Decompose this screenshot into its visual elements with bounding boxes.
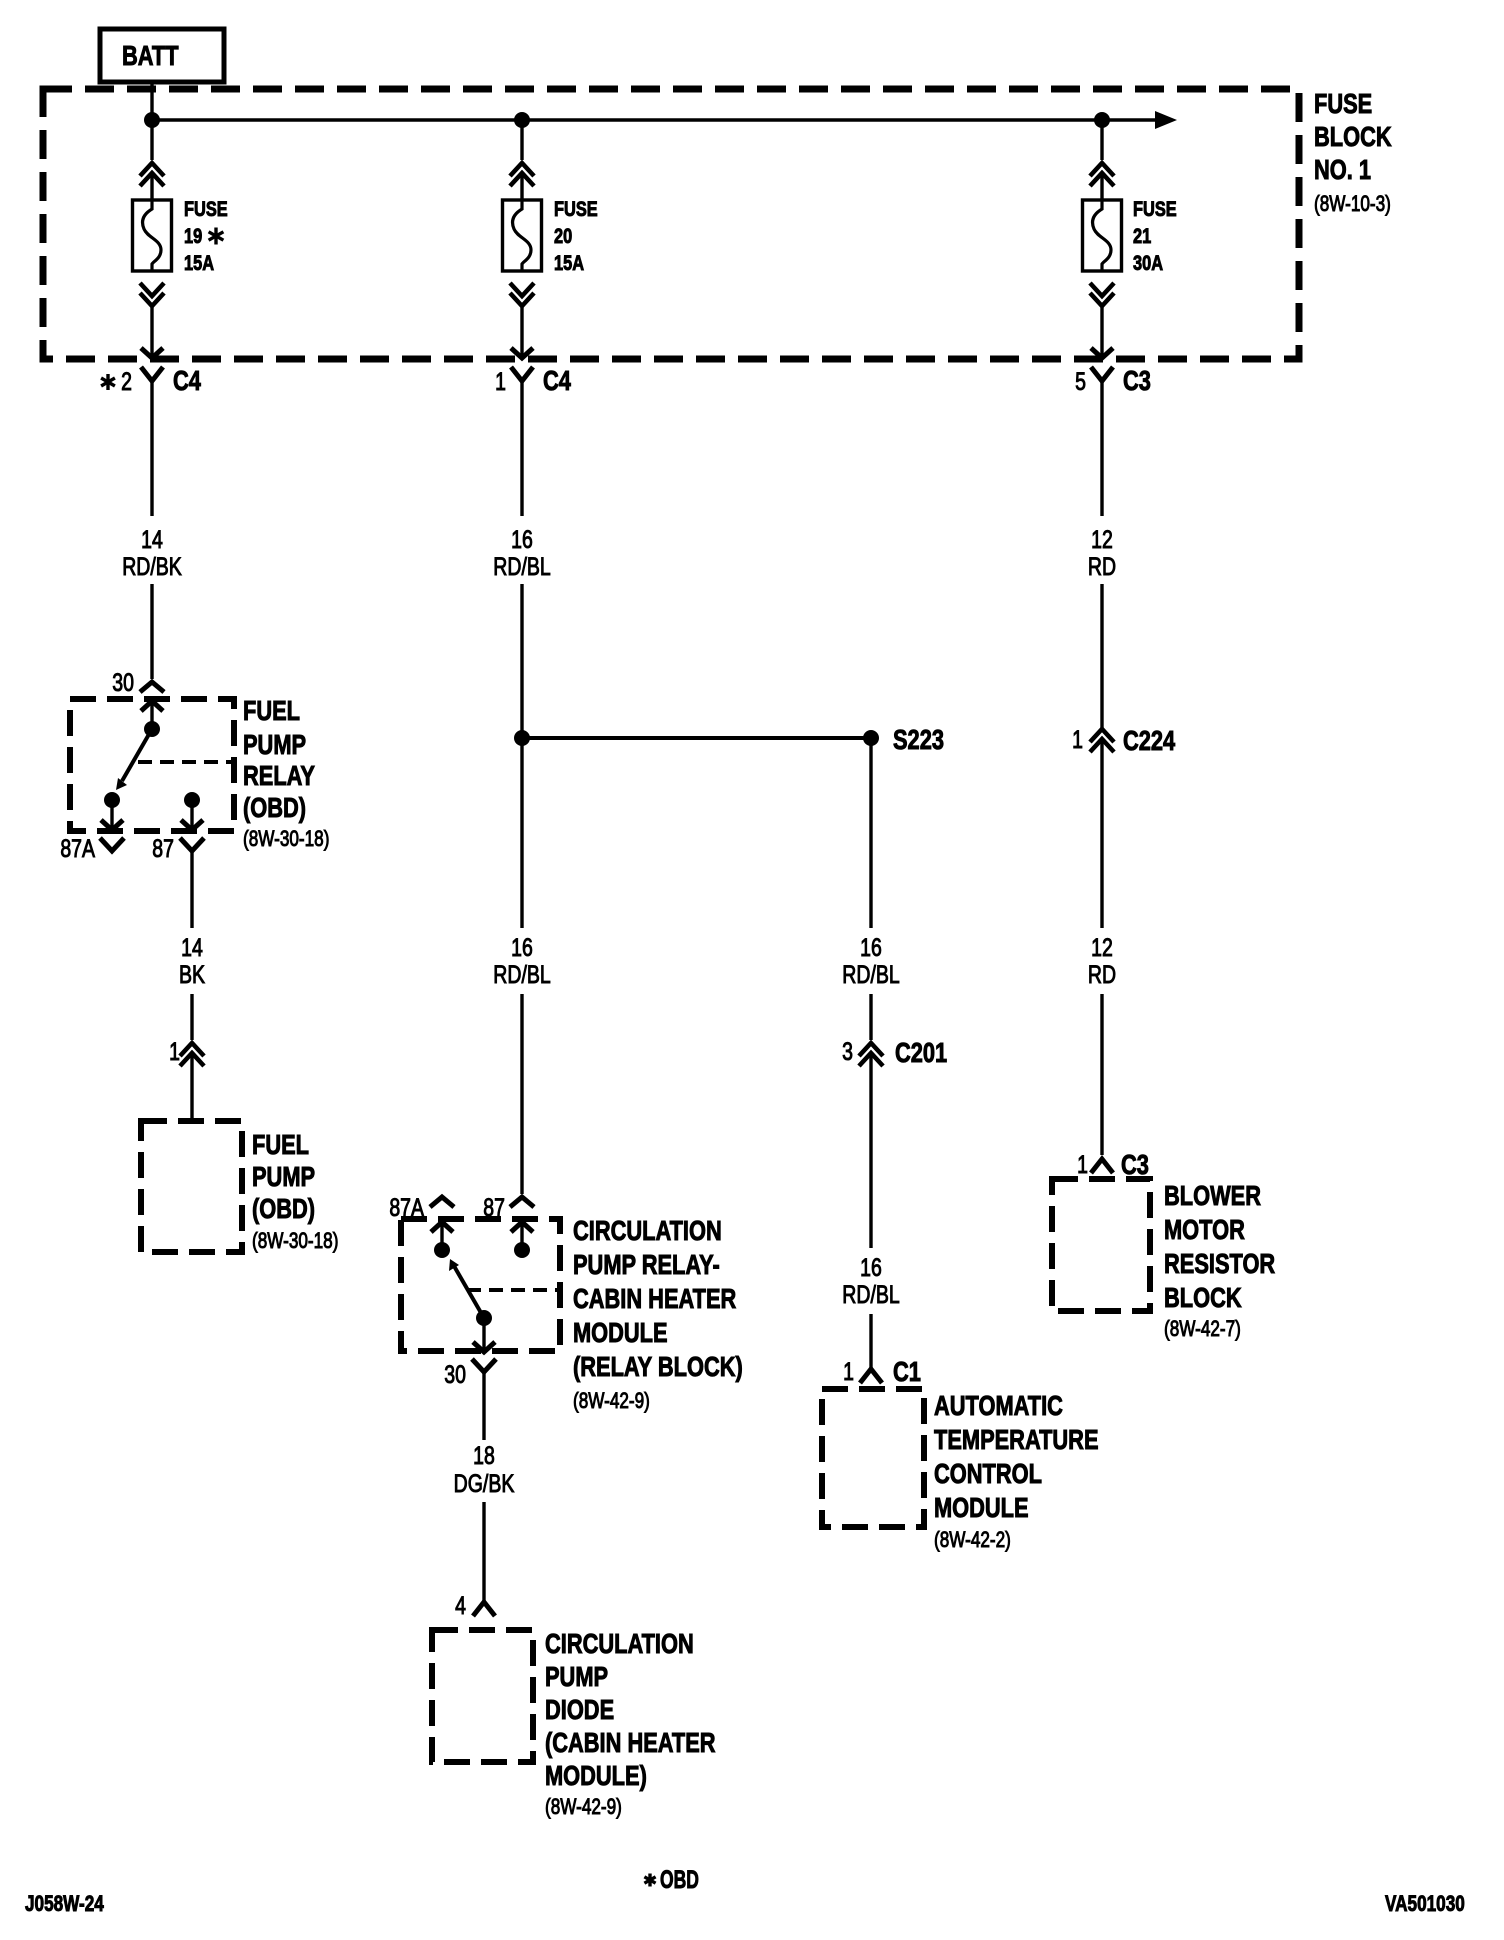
svg-text:16: 16: [860, 934, 882, 962]
svg-text:BK: BK: [179, 961, 205, 989]
fuse 20 15A: [503, 197, 598, 274]
svg-text:16: 16: [511, 934, 533, 962]
svg-text:15A: 15A: [554, 251, 584, 274]
relay common contact node (pin 30): [144, 721, 160, 737]
relay contact node 87A: [104, 792, 120, 808]
footnote OBD: [644, 1865, 698, 1894]
connector chevrons above fuse 21: [1090, 163, 1114, 186]
svg-text:PUMP: PUMP: [545, 1661, 608, 1692]
label 16 RD/BL (S223 branch): [842, 934, 899, 989]
svg-text:87: 87: [152, 835, 174, 863]
wire bus to fuse 21: [1100, 120, 1103, 200]
connector C3 pin 5 (fuse 21 output): [1075, 365, 1151, 396]
svg-text:RD/BL: RD/BL: [842, 961, 899, 989]
svg-text:16: 16: [511, 526, 533, 554]
junction node at fuse 20: [514, 112, 530, 128]
wire C4-2 down, circuit 14 RD/BK: [150, 381, 153, 679]
svg-text:VA501030: VA501030: [1385, 1892, 1465, 1917]
svg-text:14: 14: [141, 526, 163, 554]
wire bus to fuse 20: [520, 120, 523, 200]
svg-text:C1: C1: [893, 1356, 921, 1387]
svg-text:RD: RD: [1088, 961, 1116, 989]
wire bus to fuse 19: [150, 120, 153, 200]
svg-text:FUSE: FUSE: [554, 197, 598, 220]
label 12 RD (lower): [1088, 934, 1116, 989]
blower motor resistor label: [1164, 1180, 1275, 1341]
fuse 21 30A: [1083, 197, 1177, 274]
fuel pump connector pin 1: [169, 1038, 204, 1066]
svg-text:CABIN HEATER: CABIN HEATER: [573, 1283, 736, 1314]
relay2 armature arrow: [449, 1259, 484, 1318]
wire C4-1 down, circuit 16 RD/BL: [520, 381, 523, 738]
wire down to circulation pump relay, 16 RD/BL: [520, 738, 523, 1194]
label 14 RD/BK: [122, 526, 182, 581]
connector chevrons below fuse 20: [510, 283, 534, 306]
svg-text:1: 1: [169, 1038, 180, 1066]
svg-text:30: 30: [444, 1361, 466, 1389]
svg-text:C224: C224: [1123, 725, 1175, 756]
svg-text:NO. 1: NO. 1: [1314, 154, 1371, 185]
svg-text:2: 2: [121, 368, 132, 396]
svg-text:CIRCULATION: CIRCULATION: [573, 1215, 722, 1246]
svg-text:(8W-10-3): (8W-10-3): [1314, 192, 1391, 217]
svg-text:(8W-42-7): (8W-42-7): [1164, 1317, 1241, 1342]
splice node toward S223: [514, 730, 530, 746]
label 12 RD (upper): [1088, 526, 1116, 581]
splice S223: [863, 724, 944, 755]
connector C4 pin 1 (fuse 20 output): [495, 365, 571, 396]
svg-text:RD/BL: RD/BL: [842, 1281, 899, 1309]
relay2 contact node 87: [514, 1242, 530, 1258]
svg-text:BLOWER: BLOWER: [1164, 1180, 1261, 1211]
circulation pump relay dashed box: [401, 1219, 560, 1351]
connector chevrons below fuse 19: [140, 283, 164, 306]
label 16 RD/BL (upper): [493, 526, 550, 581]
svg-text:CONTROL: CONTROL: [934, 1458, 1042, 1489]
fuel pump relay (OBD) dashed box: [70, 699, 234, 831]
connector C3 pin 1 (blower resistor): [1077, 1149, 1149, 1180]
wire BATT to bus: [150, 82, 153, 120]
fuel pump label: [252, 1129, 338, 1253]
svg-text:12: 12: [1091, 526, 1113, 554]
svg-text:DIODE: DIODE: [545, 1694, 614, 1725]
svg-text:BATT: BATT: [122, 40, 179, 71]
svg-text:30: 30: [112, 669, 134, 697]
battery feed box BATT: [100, 29, 224, 82]
svg-text:14: 14: [181, 934, 203, 962]
wire C224 to C3, 12 RD: [1100, 738, 1103, 1155]
svg-text:C201: C201: [895, 1037, 947, 1068]
svg-text:RD/BL: RD/BL: [493, 961, 550, 989]
svg-text:PUMP: PUMP: [252, 1161, 315, 1192]
svg-text:PUMP: PUMP: [243, 729, 306, 760]
junction node at fuse 19: [144, 112, 160, 128]
wire fuse 20 to block edge: [511, 306, 533, 358]
relay armature arrow: [116, 729, 152, 790]
svg-text:FUSE: FUSE: [1133, 197, 1177, 220]
wire fuse 19 to block edge: [141, 306, 163, 358]
svg-text:FUSE: FUSE: [1314, 88, 1372, 119]
svg-text:MODULE: MODULE: [573, 1317, 668, 1348]
connector chevrons above fuse 19: [140, 163, 164, 186]
svg-text:1: 1: [843, 1358, 854, 1386]
svg-text:MOTOR: MOTOR: [1164, 1214, 1245, 1245]
svg-text:5: 5: [1075, 368, 1086, 396]
circulation pump relay label: [573, 1215, 743, 1413]
svg-text:C4: C4: [173, 365, 201, 396]
connector C201 pin 3: [842, 1037, 947, 1068]
svg-text:3: 3: [842, 1038, 853, 1066]
fuel pump relay label: [243, 695, 329, 851]
ATC module label: [934, 1390, 1099, 1552]
svg-text:(OBD): (OBD): [243, 792, 306, 823]
wire fuse 21 to block edge: [1091, 306, 1113, 358]
relay contact node 87: [184, 792, 200, 808]
label 16 RD/BL (lower): [493, 934, 550, 989]
svg-text:15A: 15A: [184, 251, 214, 274]
bus wire with arrow: [152, 111, 1177, 129]
svg-text:CIRCULATION: CIRCULATION: [545, 1628, 694, 1659]
svg-text:16: 16: [860, 1254, 882, 1282]
svg-text:(8W-30-18): (8W-30-18): [243, 827, 329, 852]
svg-text:BLOCK: BLOCK: [1314, 121, 1392, 152]
connector C4 pin 2 (fuse 19 output): [101, 365, 201, 396]
junction node at fuse 21: [1094, 112, 1110, 128]
fuel pump relay pin 30: [112, 669, 164, 725]
wire C3-5 down, circuit 12 RD: [1100, 381, 1103, 729]
svg-text:MODULE): MODULE): [545, 1760, 647, 1791]
wire relay 87 down, circuit 14 BK: [190, 851, 193, 1040]
svg-text:18: 18: [473, 1442, 495, 1470]
circulation pump diode label: [545, 1628, 716, 1819]
relay pin 87 output: [152, 800, 204, 863]
label 16 RD/BL (to C1): [842, 1254, 899, 1309]
svg-text:TEMPERATURE: TEMPERATURE: [934, 1424, 1099, 1455]
connector chevrons above fuse 20: [510, 163, 534, 186]
svg-text:1: 1: [1072, 726, 1083, 754]
svg-text:RELAY: RELAY: [243, 760, 315, 791]
relay pin 87A (no connection): [60, 800, 124, 863]
svg-text:30A: 30A: [1133, 251, 1163, 274]
svg-text:PUMP RELAY-: PUMP RELAY-: [573, 1249, 720, 1280]
svg-text:C3: C3: [1123, 365, 1151, 396]
fuse block label: [1314, 88, 1392, 216]
connector C224 pin 1: [1072, 725, 1175, 756]
circulation pump diode connector pin 4: [455, 1592, 495, 1620]
svg-text:(8W-42-9): (8W-42-9): [545, 1795, 622, 1820]
connector chevrons below fuse 21: [1090, 283, 1114, 306]
fuse 19 15A: [133, 197, 228, 274]
circulation pump relay pin 87A: [389, 1194, 454, 1246]
drawing number VA501030: [1385, 1892, 1465, 1917]
svg-text:DG/BK: DG/BK: [454, 1470, 515, 1498]
svg-text:19: 19: [184, 224, 202, 247]
blower motor resistor block dashed box: [1052, 1179, 1150, 1311]
svg-text:MODULE: MODULE: [934, 1492, 1029, 1523]
svg-text:BLOCK: BLOCK: [1164, 1282, 1242, 1313]
svg-text:1: 1: [1077, 1151, 1088, 1179]
svg-text:12: 12: [1091, 934, 1113, 962]
relay2 common node (pin 30): [476, 1310, 492, 1326]
svg-text:(CABIN HEATER: (CABIN HEATER: [545, 1727, 716, 1758]
sheet number J058W-24: [25, 1892, 104, 1917]
fuse block no.1 dashed enclosure: [43, 89, 1299, 359]
wire S223 down, circuit 16 RD/BL: [869, 738, 872, 1040]
svg-text:RD/BL: RD/BL: [493, 553, 550, 581]
svg-text:FUEL: FUEL: [252, 1129, 309, 1160]
svg-text:21: 21: [1133, 224, 1151, 247]
label 18 DG/BK: [454, 1442, 515, 1498]
svg-text:OBD: OBD: [660, 1865, 699, 1894]
circulation pump diode dashed box: [432, 1630, 533, 1762]
svg-text:(OBD): (OBD): [252, 1193, 315, 1224]
label 14 BK: [179, 934, 205, 989]
wire splice to S223: [522, 736, 871, 740]
svg-text:S223: S223: [893, 724, 944, 755]
wire C201 to C1, 16 RD/BL: [869, 1052, 872, 1369]
relay2 contact node 87A: [434, 1242, 450, 1258]
svg-text:87A: 87A: [60, 835, 95, 863]
svg-text:(8W-30-18): (8W-30-18): [252, 1229, 338, 1254]
svg-text:J058W-24: J058W-24: [25, 1892, 104, 1917]
wire relay2 pin30 down, circuit 18 DG/BK: [482, 1372, 485, 1602]
circulation pump relay pin 87: [483, 1194, 534, 1246]
svg-text:1: 1: [495, 368, 506, 396]
svg-text:AUTOMATIC: AUTOMATIC: [934, 1390, 1063, 1421]
svg-text:(8W-42-2): (8W-42-2): [934, 1528, 1011, 1553]
svg-text:RESISTOR: RESISTOR: [1164, 1248, 1275, 1279]
svg-text:4: 4: [455, 1592, 466, 1620]
connector C1 pin 1: [843, 1356, 921, 1387]
relay2 pin 30 output: [444, 1318, 496, 1389]
svg-text:RD: RD: [1088, 553, 1116, 581]
automatic temperature control module dashed box: [822, 1389, 924, 1527]
svg-text:FUSE: FUSE: [184, 197, 228, 220]
svg-text:C4: C4: [543, 365, 571, 396]
svg-text:(RELAY BLOCK): (RELAY BLOCK): [573, 1351, 743, 1382]
svg-text:FUEL: FUEL: [243, 695, 300, 726]
wire to fuel pump: [190, 1052, 193, 1121]
svg-text:(8W-42-9): (8W-42-9): [573, 1389, 650, 1414]
fuel pump (OBD) dashed box: [141, 1121, 242, 1252]
svg-text:RD/BK: RD/BK: [122, 553, 182, 581]
svg-text:20: 20: [554, 224, 572, 247]
